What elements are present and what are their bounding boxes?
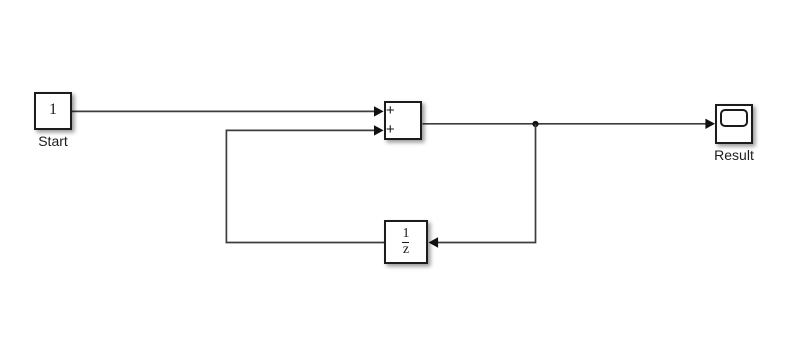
sum block U-sum <box>384 101 422 140</box>
label Result <box>714 147 754 163</box>
unit delay block 1/z <box>384 220 428 264</box>
constant block Start <box>34 92 72 130</box>
label Start <box>38 133 68 149</box>
scope block Result <box>715 104 753 144</box>
